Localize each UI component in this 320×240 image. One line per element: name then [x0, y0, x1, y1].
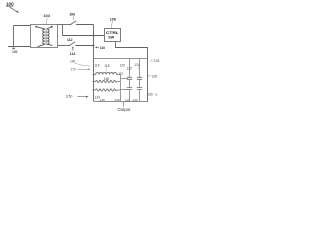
svg-text:170: 170: [71, 68, 77, 72]
svg-text:100: 100: [6, 1, 14, 6]
svg-text:146: 146: [70, 60, 76, 64]
svg-text:114: 114: [70, 52, 76, 56]
wire inductor output vertical: [120, 75, 122, 102]
label 110 at node C: [96, 46, 99, 48]
svg-text:128: 128: [151, 75, 157, 79]
node C junction: [93, 45, 95, 47]
wire input top: [14, 25, 31, 27]
wire main vertical: [93, 25, 95, 102]
wire stub to capacitors: [121, 78, 128, 80]
svg-text:a: a: [155, 92, 157, 96]
svg-text:1150: 1150: [66, 94, 73, 98]
svg-text:130: 130: [147, 92, 153, 96]
svg-text:106: 106: [69, 12, 75, 16]
label 112 switch C: [67, 38, 73, 42]
label 124 caps top right: [134, 63, 140, 67]
wire top rail: [94, 58, 148, 60]
svg-text:Output: Output: [117, 107, 131, 112]
label 126 right edge top: [150, 60, 153, 62]
label 146 left of rail with leader: [70, 60, 76, 64]
svg-text:SW: SW: [108, 36, 114, 40]
labels bottom row: [100, 98, 138, 102]
capacitor C1 branch: [129, 59, 131, 78]
label 108: [110, 18, 116, 22]
transformer T1 box: [31, 25, 58, 48]
svg-text:CTRL: CTRL: [106, 31, 120, 35]
svg-text:124: 124: [134, 63, 140, 67]
inductor L2 row: [94, 81, 96, 83]
transformer leads: [37, 27, 45, 29]
label 170 left of rail with arrow: [71, 68, 77, 72]
svg-text:116: 116: [94, 64, 99, 68]
svg-text:126: 126: [154, 59, 160, 63]
svg-text:102: 102: [12, 50, 18, 54]
wire bottom rail: [94, 101, 148, 103]
label 134 near left rail bottom: [95, 96, 101, 100]
wire A secondary top: [58, 24, 71, 26]
wire input left vertical: [13, 26, 15, 47]
wire input bottom: [8, 46, 31, 48]
label Output: [117, 107, 131, 112]
svg-text:120: 120: [120, 63, 126, 67]
label 118 inductor top: [104, 64, 109, 68]
capacitor C2 branch: [139, 59, 141, 78]
svg-text:104: 104: [43, 13, 50, 18]
label 102: [12, 50, 18, 54]
svg-text:136: 136: [100, 98, 105, 102]
label 120 right of inductors top: [120, 63, 126, 67]
label 148 mid coils: [104, 77, 110, 81]
wire U1 output to right rail: [116, 42, 148, 102]
controller U1 box 108: [105, 29, 121, 42]
wire output lead: [123, 102, 125, 107]
label 114 below switch C with arrow: [72, 48, 74, 51]
label 106: [69, 12, 75, 16]
label 100: [6, 1, 14, 6]
label 152 above coil output: [118, 71, 123, 75]
svg-text:118: 118: [104, 64, 109, 68]
node dots on left rail: [93, 74, 95, 76]
transformer primary winding: [43, 29, 45, 44]
transformer phase dot right: [51, 26, 53, 28]
svg-text:122: 122: [127, 67, 133, 71]
transformer label 104: [43, 13, 50, 18]
switch S1 blade: [70, 21, 76, 25]
node input junction: [12, 48, 14, 50]
label 122 caps top left: [127, 67, 133, 71]
label 128 right edge mid: [148, 75, 151, 77]
inductor L1 row: [94, 74, 96, 76]
transformer core: [44, 30, 47, 45]
svg-text:112: 112: [67, 38, 73, 42]
label 116 left rail upper: [94, 64, 99, 68]
svg-text:142: 142: [132, 98, 137, 102]
wire C secondary bottom: [58, 45, 70, 47]
label 130 right edge lower: [147, 92, 157, 96]
wire B loop: [62, 25, 64, 36]
switch S2 blade: [69, 42, 75, 46]
svg-text:108: 108: [110, 18, 116, 22]
svg-text:148: 148: [104, 77, 110, 81]
svg-text:110: 110: [100, 46, 105, 50]
transformer phase dot left: [35, 26, 37, 28]
label 132 bottom arrow to left rail: [66, 94, 73, 98]
svg-text:138: 138: [114, 98, 119, 102]
transformer secondary winding: [47, 29, 49, 44]
inductor L3 row: [94, 89, 96, 91]
node B junction: [93, 35, 95, 37]
svg-text:140: 140: [124, 98, 129, 102]
